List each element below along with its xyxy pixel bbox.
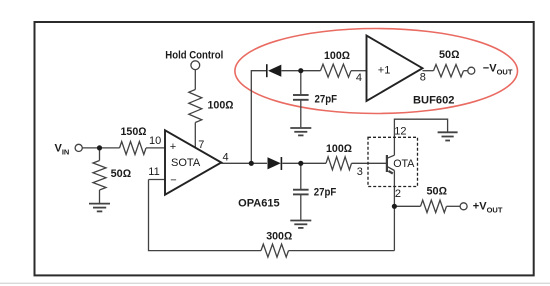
wire VIN to 150: [82, 147, 119, 149]
svg-text:4: 4: [223, 151, 229, 163]
ground collector: [438, 132, 458, 140]
svg-text:−: −: [170, 174, 176, 186]
wire SOTA pin11: [149, 179, 166, 181]
svg-text:100Ω: 100Ω: [208, 100, 235, 112]
transistor OTA: [387, 155, 395, 174]
svg-text:100Ω: 100Ω: [324, 50, 351, 62]
OTA dashed box: [368, 137, 418, 186]
junction node C: [298, 161, 303, 166]
svg-text:27pF: 27pF: [314, 187, 337, 199]
resistor R 50ohm input: [93, 161, 106, 191]
svg-text:OTA: OTA: [393, 158, 415, 170]
ground input: [89, 204, 110, 212]
svg-text:2: 2: [395, 188, 401, 200]
page separator line: [0, 282, 550, 284]
wire 50 to terminal: [464, 70, 468, 72]
terminal Hold Control: [191, 61, 200, 70]
svg-text:+: +: [170, 141, 176, 153]
diode D2 (track): [268, 157, 282, 170]
wire D2 to node C: [282, 162, 326, 164]
svg-text:SOTA: SOTA: [171, 157, 201, 169]
svg-text:8: 8: [420, 72, 426, 84]
svg-text:150Ω: 150Ω: [121, 126, 148, 138]
wire cap2 to ground: [300, 194, 302, 219]
wire 100 to OTA base: [352, 162, 388, 164]
wire 50 to terminal: [447, 205, 461, 207]
svg-text:100Ω: 100Ω: [326, 143, 353, 155]
svg-text:12: 12: [394, 126, 406, 138]
ground cap1: [290, 128, 311, 135]
svg-text:+1: +1: [378, 65, 391, 77]
red highlight ellipse: [235, 29, 518, 114]
terminal -VOUT: [468, 67, 475, 74]
svg-text:50Ω: 50Ω: [427, 186, 448, 198]
svg-text:50Ω: 50Ω: [439, 49, 460, 61]
wire node D to 50: [394, 205, 420, 207]
wire node C down to cap2: [300, 163, 302, 189]
op-amp BUF602: [367, 36, 423, 102]
wire feedback right vertical: [393, 206, 395, 250]
junction node pin4: [249, 161, 254, 166]
resistor R 300ohm: [261, 244, 289, 257]
resistor R 150ohm: [120, 142, 147, 155]
capacitor 27pF bottom: [293, 190, 309, 195]
wire OTA emitter down: [393, 171, 395, 207]
wire feedback bottom right: [289, 250, 395, 252]
svg-text:7: 7: [198, 139, 204, 151]
capacitor 27pF top: [293, 95, 309, 100]
wire 100 to SOTA pin7: [194, 123, 196, 148]
wire BUF output: [423, 70, 434, 72]
wire node A down: [99, 148, 101, 161]
junction node A: [97, 145, 102, 150]
terminal +VOUT: [460, 203, 467, 210]
svg-text:Hold Control: Hold Control: [165, 50, 223, 62]
diode D1 (hold): [267, 64, 282, 77]
resistor R 100ohm top: [321, 64, 352, 77]
svg-text:11: 11: [148, 166, 159, 178]
svg-text:3: 3: [357, 166, 363, 178]
svg-text:OPA615: OPA615: [238, 198, 280, 210]
wire OTA collector to ground: [394, 119, 447, 155]
wire 50 to ground: [99, 190, 101, 203]
wire SOTA output: [221, 162, 267, 164]
wire 150 to SOTA pin10: [146, 147, 165, 149]
resistor R 100ohm hold: [189, 90, 202, 123]
wire 100 to BUF pin4: [351, 70, 367, 72]
wire D1 to node B: [282, 70, 321, 72]
svg-text:300Ω: 300Ω: [266, 231, 293, 243]
wire feedback bottom left: [149, 180, 262, 251]
svg-text:4: 4: [356, 72, 362, 84]
resistor R 100ohm ota: [326, 157, 352, 170]
svg-text:BUF602: BUF602: [413, 94, 455, 106]
terminal VIN: [75, 144, 82, 151]
resistor R 50ohm buf: [434, 65, 464, 77]
wire hold branch vertical: [251, 71, 266, 164]
resistor R 50ohm vout: [421, 200, 447, 212]
op-amp SOTA (OPA615): [165, 130, 221, 194]
wire node B down to cap: [300, 71, 302, 95]
svg-text:27pF: 27pF: [315, 93, 338, 105]
wire cap to ground: [300, 100, 302, 128]
junction node B: [298, 68, 303, 73]
wire hold to 100: [194, 70, 196, 90]
svg-text:10: 10: [149, 135, 161, 147]
junction node D: [392, 204, 397, 209]
ground cap2: [290, 221, 311, 228]
svg-text:50Ω: 50Ω: [111, 168, 132, 180]
